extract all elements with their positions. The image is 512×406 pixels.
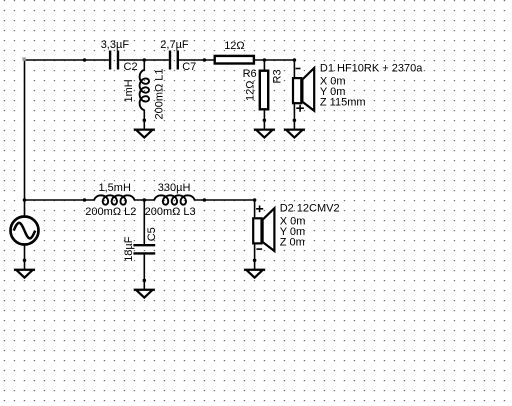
capacitor C7 — [160, 39, 196, 73]
wire middle horizontal 2 — [134, 199, 154, 201]
svg-text:1,5mH: 1,5mH — [99, 182, 131, 194]
svg-text:2,7µF: 2,7µF — [160, 39, 189, 51]
wire top horizontal segment 2 — [119, 59, 169, 61]
capacitor C5 — [123, 200, 158, 290]
wire top horizontal segment 3 — [179, 59, 214, 61]
node gnd D2 — [253, 259, 257, 263]
svg-text:200mΩ L1: 200mΩ L1 — [153, 68, 165, 119]
wire middle horizontal 3 — [195, 199, 255, 201]
ground (D2) — [244, 270, 265, 278]
speaker D2 — [253, 200, 339, 270]
ground (L1) — [134, 130, 155, 138]
svg-text:18µF: 18µF — [123, 236, 135, 262]
node mid L3 right — [203, 198, 207, 202]
voltage source V1 — [11, 217, 39, 270]
ground (R3) — [254, 130, 275, 138]
svg-text:R6: R6 — [243, 68, 257, 80]
node top D1 corner — [293, 58, 297, 62]
svg-text:C2: C2 — [124, 61, 138, 73]
ground (D1) — [284, 130, 305, 138]
node mid source tap — [23, 198, 27, 202]
resistor R3 — [245, 60, 284, 130]
svg-text:C5: C5 — [146, 227, 158, 241]
node gnd D1 — [293, 119, 297, 123]
svg-text:Z 115mm: Z 115mm — [320, 96, 366, 108]
capacitor C2 — [101, 39, 138, 73]
inductor L1 — [123, 60, 165, 130]
svg-text:R3: R3 — [272, 69, 284, 83]
svg-text:D1 HF10RK + 2370a: D1 HF10RK + 2370a — [320, 63, 423, 75]
svg-text:3,3µF: 3,3µF — [101, 39, 130, 51]
node top L1 tap — [143, 58, 147, 62]
node top R3 tap — [263, 58, 267, 62]
wire top horizontal segment 4 — [255, 59, 295, 61]
wire middle horizontal — [25, 199, 95, 201]
svg-text:D2 12CMV2: D2 12CMV2 — [280, 202, 340, 214]
svg-text:Z 0m: Z 0m — [280, 236, 305, 248]
node mid L2 left — [83, 198, 87, 202]
svg-text:1mH: 1mH — [123, 79, 135, 102]
ground (C5) — [134, 290, 155, 298]
speaker D1 — [293, 60, 423, 130]
node gnd source — [23, 259, 27, 263]
svg-text:330µH: 330µH — [158, 182, 191, 194]
resistor R6 — [215, 40, 257, 80]
svg-text:200mΩ L3: 200mΩ L3 — [145, 206, 196, 218]
wire left vertical — [24, 59, 26, 216]
svg-text:200mΩ L2: 200mΩ L2 — [85, 206, 136, 218]
node mid D2 corner — [253, 198, 257, 202]
node gnd L1 — [143, 119, 147, 123]
node top x204 — [203, 58, 207, 62]
inductor L3 — [145, 182, 196, 218]
inductor L2 — [85, 182, 136, 218]
node gnd R3 — [263, 119, 267, 123]
node gnd C5 — [143, 279, 147, 283]
node top x84 — [83, 58, 87, 62]
corner handle — [22, 57, 25, 60]
node mid C5 tap — [143, 198, 147, 202]
ground (source) — [14, 270, 35, 278]
wire top horizontal segment 1 — [25, 59, 109, 61]
svg-text:C7: C7 — [182, 61, 196, 73]
svg-text:12Ω: 12Ω — [224, 40, 244, 52]
svg-text:12Ω: 12Ω — [245, 81, 257, 101]
